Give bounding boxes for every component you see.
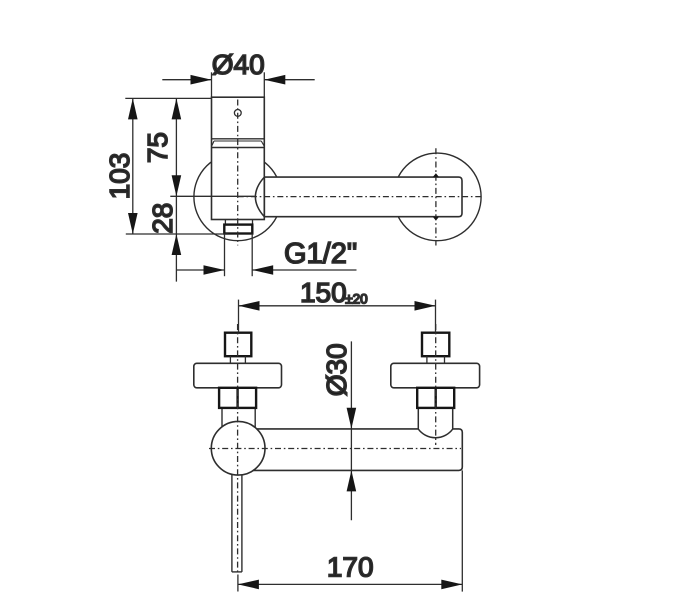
dimension 150±20 xyxy=(239,300,436,333)
dimension G1/2 xyxy=(176,234,356,277)
dimension 103 xyxy=(132,98,134,234)
front view: stubs under square nuts xyxy=(230,356,444,363)
side view: inlet collar xyxy=(225,220,252,225)
front view: right hex nut xyxy=(417,388,454,408)
front view: right vertical centerline xyxy=(435,324,437,445)
dimension 170 xyxy=(238,470,462,591)
svg-text:75: 75 xyxy=(142,132,173,163)
side view: pipe-body intersection curve xyxy=(255,177,264,217)
dimension Ø30 xyxy=(350,341,352,520)
side view: spout pipe xyxy=(264,177,462,217)
side view: pipe diameter tick arrows xyxy=(433,173,439,220)
side view: body joint band xyxy=(212,139,265,148)
svg-text:103: 103 xyxy=(104,153,135,200)
svg-text:Ø40: Ø40 xyxy=(212,49,265,80)
svg-text:±20: ±20 xyxy=(345,292,367,307)
front view: right wall plate xyxy=(391,363,480,388)
side view: G1/2 nut xyxy=(224,225,252,234)
front view: left check-valve square nut xyxy=(225,333,251,357)
svg-text:Ø30: Ø30 xyxy=(321,343,352,396)
side view: pipe centerline xyxy=(238,196,484,198)
svg-text:28: 28 xyxy=(147,203,178,234)
svg-text:170: 170 xyxy=(327,551,374,582)
front view: knob circle xyxy=(211,421,265,475)
side view: valve body xyxy=(212,97,265,219)
svg-text:150: 150 xyxy=(300,277,347,308)
front view: horizontal centerline xyxy=(209,448,461,450)
dimension 75 / 28 xyxy=(175,98,177,281)
front view: right outlet cone xyxy=(418,408,452,438)
front view: left wall plate xyxy=(194,363,282,388)
side view: wall flange circle (left) xyxy=(194,153,282,241)
side view: right circle centerline xyxy=(435,148,437,245)
side view: wall flange circle (right) xyxy=(394,153,482,241)
dimension Ø40 xyxy=(162,72,314,97)
front view: left hex neck xyxy=(222,408,255,428)
front view: right check-valve square nut xyxy=(422,333,449,357)
front view: left hex nut xyxy=(219,388,256,408)
dimension 103 / 75 / 28 extension lines xyxy=(125,98,256,234)
front view: left vertical centerline xyxy=(237,324,239,575)
svg-text:G1/2": G1/2" xyxy=(284,238,357,270)
front view: body bar xyxy=(225,429,462,471)
front view: lever handle xyxy=(232,474,242,572)
side view: screw hole xyxy=(234,110,241,117)
side view: body centerline xyxy=(237,100,239,246)
